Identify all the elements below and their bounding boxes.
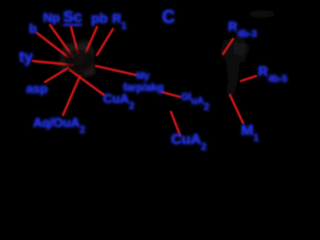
label C: [162, 11, 175, 23]
label two-line part 1: [136, 71, 149, 83]
label b: [29, 23, 37, 35]
wire from right object to R4b-5 label: [241, 76, 256, 81]
label R4b-5: [258, 65, 287, 86]
dark molecule blob left hub: [58, 40, 96, 78]
label CuA2 mid: [103, 93, 134, 113]
red leader lines: [33, 25, 256, 135]
label pb: [91, 12, 108, 24]
wire from bottom-left label to hub: [63, 76, 80, 115]
label CuA2 bottom: [171, 134, 206, 154]
label ty: [19, 52, 33, 64]
label M1: [241, 125, 258, 145]
wire from R4b-3 label to right object: [223, 39, 233, 54]
wire from label asp to hub: [45, 68, 68, 82]
wire down to bottom CuA2 label: [171, 112, 180, 135]
label asp: [26, 83, 48, 95]
label spa: [181, 92, 209, 110]
label Aq/OuA2: [33, 117, 85, 137]
occluding shadow over hub line ends: [65, 49, 93, 71]
wire from label C down (dimmer): [165, 24, 167, 45]
wire from label ty to hub: [33, 61, 73, 65]
dark object right (very dim): [220, 36, 250, 96]
wire from label pb to hub: [86, 27, 97, 52]
wire from label Nb to hub: [50, 25, 73, 57]
wire from right object to M1 label: [230, 95, 243, 123]
faint smudge top right: [249, 10, 275, 18]
label two-line part 2: [123, 82, 163, 94]
wire from hub to two-line label: [96, 66, 136, 75]
wire from label R1 to hub: [97, 29, 113, 55]
wire from hub to CuA2 mid label: [70, 70, 104, 95]
wire from label Sc to hub: [71, 27, 78, 53]
wire from label b to hub: [37, 33, 68, 57]
label R4b-3: [228, 21, 256, 41]
label Sc: [63, 11, 82, 26]
label R1: [112, 13, 126, 33]
background object shapes + red leader lines: [0, 0, 300, 168]
label Nb: [43, 12, 60, 24]
wire arrow to spa label: [162, 92, 180, 97]
